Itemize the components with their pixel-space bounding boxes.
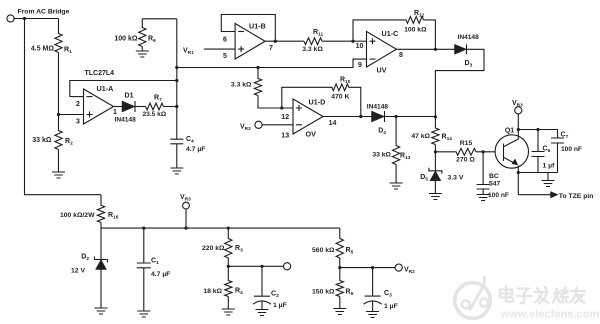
svg-text:VR3: VR3 — [180, 194, 191, 203]
ground: below C3 — [366, 312, 379, 318]
resistor R14 47 kOhm — [411, 117, 452, 152]
ground: below R6 — [136, 51, 149, 57]
svg-text:C2: C2 — [271, 291, 279, 300]
ground: below R2 — [52, 172, 65, 178]
junction: C3 tap — [371, 266, 374, 269]
capacitor C3 1 uF — [364, 268, 398, 312]
svg-text:U1-C: U1-C — [382, 29, 399, 38]
junction: R13 node — [395, 115, 398, 118]
comparator rail: VR1 to U1-C pin 9 — [177, 59, 367, 67]
zener diode D2 12V — [71, 228, 107, 308]
op-amp U1-B — [235, 22, 266, 60]
junction: C2 tap — [260, 265, 263, 268]
capacitor C4 4.7 uF — [170, 136, 205, 168]
svg-text:C1: C1 — [151, 258, 159, 267]
svg-text:100 kΩ/2W: 100 kΩ/2W — [60, 212, 95, 219]
terminal VR2 output — [395, 264, 415, 275]
svg-text:VR1: VR1 — [183, 48, 194, 57]
resistor R12 100 kOhm (hysteresis) — [353, 10, 435, 49]
svg-text:12 V: 12 V — [71, 268, 85, 275]
ground: below base capacitor — [477, 195, 490, 201]
svg-text:33 kΩ: 33 kΩ — [32, 137, 52, 144]
ground: below C2 — [256, 310, 269, 316]
junction: U1-C pin 10 node — [351, 40, 354, 43]
junction: rail to 3.3k divider resistor — [256, 66, 259, 69]
resistor R3 220 kOhm — [202, 228, 243, 266]
svg-text:547: 547 — [489, 180, 501, 187]
svg-text:8: 8 — [399, 52, 403, 59]
wire: U1-C output pin 8 — [397, 48, 436, 50]
svg-text:47 kΩ: 47 kΩ — [411, 133, 430, 140]
op-amp U1-C (UV comparator) — [367, 29, 399, 67]
svg-text:7: 7 — [269, 45, 273, 52]
capacitor C1 4.7 uF — [137, 228, 171, 311]
capacitor C7 100 nF — [551, 130, 582, 173]
svg-text:U1-B: U1-B — [249, 22, 266, 31]
svg-text:100 kΩ: 100 kΩ — [114, 36, 138, 43]
svg-text:TLC27L4: TLC27L4 — [85, 70, 115, 77]
junction: R3/R4 divider node — [227, 265, 230, 268]
junction: VR3 tap — [184, 227, 187, 230]
junction: collector rail — [517, 128, 520, 131]
wire: D1 to R7 — [135, 106, 146, 108]
junction: OR node to R14 — [434, 115, 437, 118]
wire: divider node to terminal — [228, 265, 283, 267]
svg-text:D4: D4 — [378, 128, 386, 137]
capacitor 100 nF at base — [477, 152, 509, 199]
svg-text:IN4148: IN4148 — [458, 34, 480, 41]
svg-text:100 nF: 100 nF — [561, 146, 582, 153]
svg-text:560 kΩ: 560 kΩ — [312, 247, 335, 254]
svg-text:1 µF: 1 µF — [384, 303, 398, 310]
diode D3 IN4148 — [455, 34, 480, 69]
svg-text:14: 14 — [329, 120, 337, 127]
svg-text:18 kΩ: 18 kΩ — [203, 288, 222, 295]
resistor R4 18 kOhm — [203, 266, 243, 309]
svg-text:270 Ω: 270 Ω — [456, 157, 475, 164]
svg-text:R6: R6 — [346, 289, 354, 298]
resistor R13 33 kOhm — [372, 117, 410, 184]
op-amp U1-A — [84, 84, 114, 124]
junction: feedback on VR1 node — [175, 79, 178, 82]
svg-text:UV: UV — [377, 65, 387, 74]
svg-text:OV: OV — [306, 130, 317, 139]
svg-text:13: 13 — [281, 133, 289, 140]
svg-text:IN4148: IN4148 — [115, 117, 137, 124]
svg-text:U1-A: U1-A — [97, 84, 114, 93]
wire: collector rail to C6 C7 — [518, 129, 557, 131]
junction: C1 tap — [142, 227, 145, 230]
junction: R1/R2 node to pin 3 — [57, 113, 60, 116]
ground: below C1 — [137, 311, 150, 317]
svg-text:4.7 µF: 4.7 µF — [151, 271, 170, 278]
output: To TZE pin — [518, 192, 593, 200]
svg-text:100 kΩ: 100 kΩ — [404, 27, 427, 34]
junction: rectifier output on VR1 node — [175, 105, 178, 108]
diode D4 IN4148 — [367, 104, 389, 137]
terminal: R3/R4 divider output — [284, 263, 291, 270]
svg-text:4.7 µF: 4.7 µF — [186, 146, 205, 153]
svg-text:R3: R3 — [235, 245, 243, 254]
wire: C6 C7 common — [518, 172, 557, 174]
resistor R6 150 kOhm — [312, 268, 354, 309]
svg-text:R5: R5 — [346, 247, 354, 256]
wire: divider node to VR2 terminal — [340, 267, 395, 269]
wire: VR3 to collector — [517, 114, 519, 130]
svg-text:R1: R1 — [64, 47, 72, 56]
svg-text:R4: R4 — [235, 288, 243, 297]
svg-text:9: 9 — [358, 62, 362, 69]
svg-text:C6: C6 — [543, 146, 551, 155]
svg-text:C4: C4 — [186, 136, 194, 145]
terminal VR2 input — [240, 121, 262, 132]
svg-text:1 µF: 1 µF — [273, 302, 287, 309]
svg-text:Q1: Q1 — [505, 128, 514, 135]
junction: C6 tap — [536, 128, 539, 131]
wire: D4 cathode to OR node — [385, 116, 436, 118]
svg-text:VR2: VR2 — [404, 267, 415, 276]
resistor R6 100 kOhm (peak hold bleed) — [114, 19, 156, 51]
svg-text:D3: D3 — [465, 60, 473, 69]
resistor 3.3 kOhm to U1-D pin 12 — [231, 68, 293, 109]
ground: below D2 — [95, 308, 108, 314]
junction: U1-D pin 12 / R10 feedback — [280, 106, 283, 109]
svg-text:3: 3 — [76, 118, 80, 125]
wire: R6 top to VR1 node — [142, 18, 177, 20]
resistor R1 4.5 MOhm — [31, 19, 72, 115]
terminal VR3 (top) — [512, 100, 523, 114]
svg-text:U1-D: U1-D — [309, 98, 326, 107]
svg-text:3.3 kΩ: 3.3 kΩ — [302, 46, 323, 53]
terminal: From AC Bridge input — [7, 9, 70, 23]
resistor R11 3.3 kOhm — [302, 29, 353, 53]
svg-text:BC: BC — [489, 173, 499, 180]
wire: U1-D output to D4 — [323, 116, 372, 118]
wire: U1-B unity feedback loop — [221, 15, 275, 42]
op-amp U1-D (OV comparator) — [293, 98, 325, 135]
svg-text:4.5 MΩ: 4.5 MΩ — [31, 46, 55, 53]
wire: VR1 vertical node — [176, 19, 178, 139]
svg-text:R2: R2 — [65, 138, 73, 147]
svg-text:R15: R15 — [460, 140, 473, 147]
svg-text:2: 2 — [76, 101, 80, 108]
junction: output / R12 / D3 — [434, 48, 437, 51]
svg-text:470 K: 470 K — [331, 94, 349, 101]
svg-text:1: 1 — [113, 109, 117, 116]
svg-text:www.elecfans.com: www.elecfans.com — [500, 309, 600, 321]
svg-text:R14: R14 — [442, 134, 453, 143]
wire: left rail down to R16 — [25, 19, 102, 195]
svg-text:12: 12 — [281, 114, 289, 121]
svg-text:VR2: VR2 — [240, 124, 251, 133]
svg-text:To TZE pin: To TZE pin — [559, 193, 594, 200]
junction: R10 feedback on output — [359, 115, 362, 118]
svg-text:3.3 kΩ: 3.3 kΩ — [231, 82, 252, 89]
svg-text:R11: R11 — [313, 29, 323, 38]
transistor Q1 BC547 — [489, 128, 529, 195]
svg-text:10: 10 — [356, 43, 364, 50]
watermark text: dian zi fa shao you (drawn) — [500, 287, 585, 304]
junction: base node / 100nF — [482, 150, 485, 153]
svg-text:220 kΩ: 220 kΩ — [202, 245, 225, 252]
wire: U1-B output to R11 — [265, 40, 304, 42]
wire: U1-A feedback loop — [70, 81, 177, 97]
wire: U1-A output to D1 — [114, 106, 123, 108]
svg-text:R13: R13 — [400, 153, 411, 162]
capacitor C2 1 uF — [253, 266, 287, 309]
ground: below D5 — [429, 194, 442, 200]
terminal VR3 (bottom) — [180, 194, 191, 209]
junction: feedback on U1-B output — [274, 40, 277, 43]
wire: bottom divider rail — [101, 227, 340, 229]
wire: to U1-C pin 10 — [353, 40, 367, 42]
ground: below R4 — [222, 309, 235, 315]
wire: output to D3 — [435, 48, 454, 50]
svg-text:IN4148: IN4148 — [367, 104, 389, 111]
ground: below R13 — [390, 183, 403, 189]
junction: input node to left rail — [23, 17, 26, 20]
junction: R3 tap — [227, 227, 230, 230]
svg-text:VR3: VR3 — [512, 100, 523, 109]
svg-text:C3: C3 — [384, 290, 392, 299]
resistor R10 470K (hysteresis) — [282, 77, 361, 117]
wire: feedback to U1-A pin 2 — [70, 96, 84, 98]
svg-text:D2: D2 — [81, 254, 89, 263]
junction: emitter / cap common — [517, 171, 520, 174]
resistor R15 270 Ohm — [435, 140, 495, 164]
svg-text:1 µf: 1 µf — [543, 163, 556, 170]
wire: input to R1 top — [14, 18, 58, 20]
svg-text:3.3 V: 3.3 V — [448, 175, 464, 182]
junction: R5/R6 divider node — [338, 266, 341, 269]
svg-text:D5: D5 — [420, 174, 428, 183]
svg-text:100 nF: 100 nF — [488, 192, 509, 199]
svg-text:5: 5 — [223, 53, 227, 60]
wire: D3 cathode down to OR node — [435, 49, 484, 117]
svg-text:R16: R16 — [108, 212, 119, 221]
svg-text:From AC Bridge: From AC Bridge — [18, 9, 70, 16]
svg-text:33 kΩ: 33 kΩ — [372, 152, 391, 159]
svg-text:C7: C7 — [561, 132, 569, 141]
junction: VR1 node to comparator rail — [175, 66, 178, 69]
svg-text:R7: R7 — [154, 95, 162, 104]
resistor R16 100 kOhm / 2W — [60, 195, 119, 228]
wire: VR2 to U1-D pin 13 — [262, 124, 293, 126]
zener diode D5 3.3V — [420, 152, 464, 194]
junction: R14 / R15 / D5 — [434, 150, 437, 153]
resistor R5 560 kOhm — [312, 228, 354, 268]
ground: below C4 — [170, 168, 183, 174]
ground: below R6 (bottom) — [333, 309, 346, 315]
svg-text:150 kΩ: 150 kΩ — [312, 289, 335, 296]
wire: node to U1-A pin 3 — [59, 114, 84, 116]
ground: below C6 C7 — [547, 173, 549, 181]
capacitor C6 1 uF — [532, 130, 556, 173]
svg-text:R6: R6 — [148, 35, 156, 44]
wire: VR1 to U1-B pin 5 — [204, 48, 235, 50]
watermark logo elecfans — [455, 277, 491, 318]
resistor R7 23.5 kOhm — [143, 95, 177, 119]
svg-text:D1: D1 — [125, 93, 134, 100]
svg-text:23.5 kΩ: 23.5 kΩ — [143, 111, 167, 118]
diode D1 IN4148 — [115, 93, 137, 124]
resistor R2 33 kOhm — [32, 115, 73, 173]
wire: VR3 to rail — [185, 209, 187, 228]
svg-text:6: 6 — [223, 37, 227, 44]
